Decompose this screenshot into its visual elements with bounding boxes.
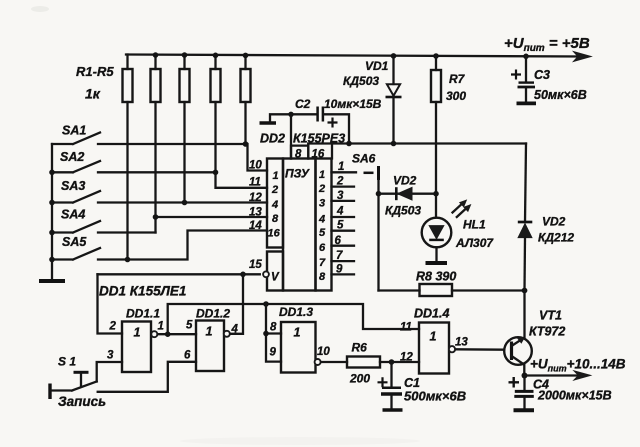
svg-text:SA6: SA6 bbox=[352, 152, 376, 166]
svg-text:SA1: SA1 bbox=[62, 124, 86, 138]
svg-text:R1-R5: R1-R5 bbox=[76, 64, 114, 79]
svg-text:DD1.1: DD1.1 bbox=[126, 307, 160, 321]
svg-text:S 1: S 1 bbox=[58, 355, 76, 369]
svg-text:12: 12 bbox=[400, 352, 413, 364]
svg-text:8: 8 bbox=[272, 213, 279, 225]
svg-text:6: 6 bbox=[319, 242, 326, 254]
svg-text:1: 1 bbox=[338, 161, 344, 173]
svg-text:+Uпит = +5В: +Uпит = +5В bbox=[504, 35, 590, 54]
svg-text:1: 1 bbox=[273, 170, 279, 182]
svg-text:АЛ307: АЛ307 bbox=[455, 236, 494, 250]
svg-text:3: 3 bbox=[107, 350, 114, 362]
svg-text:C3: C3 bbox=[534, 68, 550, 82]
svg-text:DD2: DD2 bbox=[260, 132, 285, 146]
svg-text:DD1.3: DD1.3 bbox=[279, 305, 313, 319]
svg-text:5: 5 bbox=[337, 220, 344, 232]
svg-text:1к: 1к bbox=[85, 86, 101, 102]
svg-text:HL1: HL1 bbox=[463, 218, 486, 232]
svg-text:11: 11 bbox=[400, 322, 412, 334]
svg-text:13: 13 bbox=[455, 337, 468, 349]
svg-text:9: 9 bbox=[336, 264, 343, 276]
svg-text:2: 2 bbox=[109, 321, 117, 333]
svg-text:7: 7 bbox=[319, 257, 326, 269]
svg-text:5: 5 bbox=[186, 320, 193, 332]
svg-text:КД503: КД503 bbox=[385, 204, 421, 218]
svg-text:4: 4 bbox=[318, 214, 325, 226]
svg-text:V: V bbox=[271, 272, 280, 284]
svg-text:R7: R7 bbox=[449, 72, 466, 86]
svg-text:VT1: VT1 bbox=[539, 309, 562, 323]
svg-text:15: 15 bbox=[249, 259, 262, 271]
svg-text:5: 5 bbox=[319, 227, 326, 239]
svg-text:1: 1 bbox=[206, 325, 213, 339]
svg-text:50мк×6В: 50мк×6В bbox=[534, 88, 587, 102]
svg-text:ПЗУ: ПЗУ bbox=[285, 167, 310, 181]
svg-text:+Uпит+10...14В: +Uпит+10...14В bbox=[530, 357, 626, 374]
svg-text:SA2: SA2 bbox=[60, 150, 84, 164]
svg-text:КТ972: КТ972 bbox=[529, 325, 565, 339]
svg-text:DD1.2: DD1.2 bbox=[196, 307, 230, 321]
svg-text:300: 300 bbox=[446, 89, 466, 103]
svg-text:16: 16 bbox=[268, 228, 281, 240]
svg-text:4: 4 bbox=[271, 199, 278, 211]
svg-text:200: 200 bbox=[349, 372, 370, 386]
svg-text:1: 1 bbox=[319, 169, 325, 181]
svg-text:R6: R6 bbox=[352, 341, 368, 355]
svg-text:8: 8 bbox=[319, 271, 326, 283]
svg-text:3: 3 bbox=[319, 198, 325, 210]
svg-text:7: 7 bbox=[336, 250, 343, 262]
svg-text:8: 8 bbox=[270, 322, 277, 334]
svg-text:2: 2 bbox=[336, 176, 344, 188]
svg-text:6: 6 bbox=[184, 350, 191, 362]
svg-text:VD2: VD2 bbox=[542, 215, 566, 229]
svg-text:2000мк×15В: 2000мк×15В bbox=[537, 389, 612, 403]
svg-text:R8 390: R8 390 bbox=[416, 270, 456, 284]
svg-text:500мк×6В: 500мк×6В bbox=[404, 389, 466, 404]
svg-text:VD2: VD2 bbox=[393, 174, 417, 188]
svg-text:2: 2 bbox=[271, 184, 278, 196]
svg-text:10: 10 bbox=[317, 346, 330, 358]
svg-text:10мк×15В: 10мк×15В bbox=[324, 97, 382, 111]
svg-text:4: 4 bbox=[336, 206, 344, 218]
svg-text:DD1.4: DD1.4 bbox=[414, 307, 449, 321]
svg-text:1: 1 bbox=[294, 326, 301, 340]
svg-text:Запись: Запись bbox=[58, 394, 106, 409]
svg-text:C2: C2 bbox=[295, 97, 311, 111]
svg-text:SA3: SA3 bbox=[61, 179, 85, 193]
svg-text:VD1: VD1 bbox=[365, 59, 389, 73]
svg-text:6: 6 bbox=[335, 235, 342, 247]
svg-text:1: 1 bbox=[430, 330, 437, 344]
svg-text:КД212: КД212 bbox=[538, 231, 574, 245]
svg-text:3: 3 bbox=[337, 190, 344, 202]
svg-text:9: 9 bbox=[270, 347, 277, 359]
svg-text:SA4: SA4 bbox=[61, 208, 85, 222]
svg-text:КД503: КД503 bbox=[343, 74, 379, 88]
svg-text:2: 2 bbox=[318, 183, 325, 195]
svg-text:1: 1 bbox=[158, 321, 164, 333]
svg-text:1: 1 bbox=[134, 326, 141, 340]
svg-text:SA5: SA5 bbox=[62, 235, 87, 249]
svg-text:DD1 К155ЛЕ1: DD1 К155ЛЕ1 bbox=[99, 284, 186, 299]
